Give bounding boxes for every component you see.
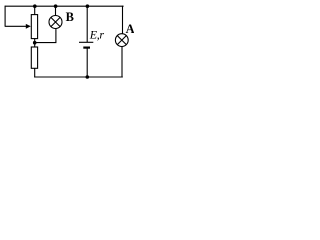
wire node to lamp B bottom [35,29,56,43]
wire lead R1 to node [34,39,36,47]
wire lamp A bottom lead [121,46,123,77]
wire lamp B top lead [55,6,57,15]
lamp B circle [49,16,62,29]
resistor R1 (rheostat body) [31,15,37,39]
wire slider horizontal [5,25,27,27]
arrowhead of rheostat slider [26,24,31,29]
wire left vertical of slider loop [4,6,6,27]
wire battery top lead [86,6,88,42]
lamp B cross [51,17,60,26]
node dot bottom of battery branch [86,75,90,79]
wire right branch top (corner) [122,6,124,34]
wire top horizontal [5,5,124,7]
node dot top of resistor branch [33,4,37,8]
battery E,r positive plate (long) [79,41,93,43]
node dot top of battery branch [86,4,90,8]
lamp A circle [115,34,128,47]
node junction dot between resistors [33,41,37,45]
svg-text:B: B [66,10,74,24]
node dot top of lamp B branch [54,4,58,8]
battery E,r negative plate (short thick) [83,46,90,48]
svg-text:A: A [126,22,134,36]
resistor R2 [31,47,37,68]
wire bottom horizontal [34,76,123,78]
lamp A cross [117,36,126,45]
wire battery bottom lead [86,48,88,77]
wire lead R2 to bottom wire [34,68,36,77]
wire lead top wire to R1 [34,6,36,14]
svg-text:E,r: E,r [89,28,105,42]
